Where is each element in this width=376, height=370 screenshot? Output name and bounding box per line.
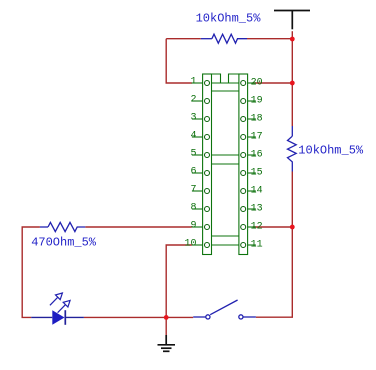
svg-text:470Ohm_5%: 470Ohm_5%: [31, 236, 97, 250]
svg-text:7: 7: [190, 184, 196, 195]
svg-text:12: 12: [251, 221, 263, 232]
svg-text:14: 14: [251, 185, 263, 196]
svg-text:13: 13: [251, 203, 263, 214]
svg-text:9: 9: [190, 220, 196, 231]
svg-text:2: 2: [190, 94, 196, 105]
svg-text:18: 18: [251, 113, 263, 124]
svg-text:5: 5: [190, 148, 196, 159]
svg-text:8: 8: [190, 202, 196, 213]
svg-text:10kOhm_5%: 10kOhm_5%: [298, 143, 364, 157]
svg-text:11: 11: [251, 239, 263, 250]
svg-text:20: 20: [251, 77, 263, 88]
svg-text:15: 15: [251, 167, 263, 178]
svg-text:3: 3: [190, 112, 196, 123]
svg-text:4: 4: [190, 130, 196, 141]
svg-text:6: 6: [190, 166, 196, 177]
svg-text:10: 10: [184, 238, 196, 249]
svg-text:16: 16: [251, 149, 263, 160]
svg-text:19: 19: [251, 95, 263, 106]
svg-text:10kOhm_5%: 10kOhm_5%: [196, 11, 262, 25]
svg-text:1: 1: [190, 76, 196, 87]
svg-text:17: 17: [251, 131, 263, 142]
